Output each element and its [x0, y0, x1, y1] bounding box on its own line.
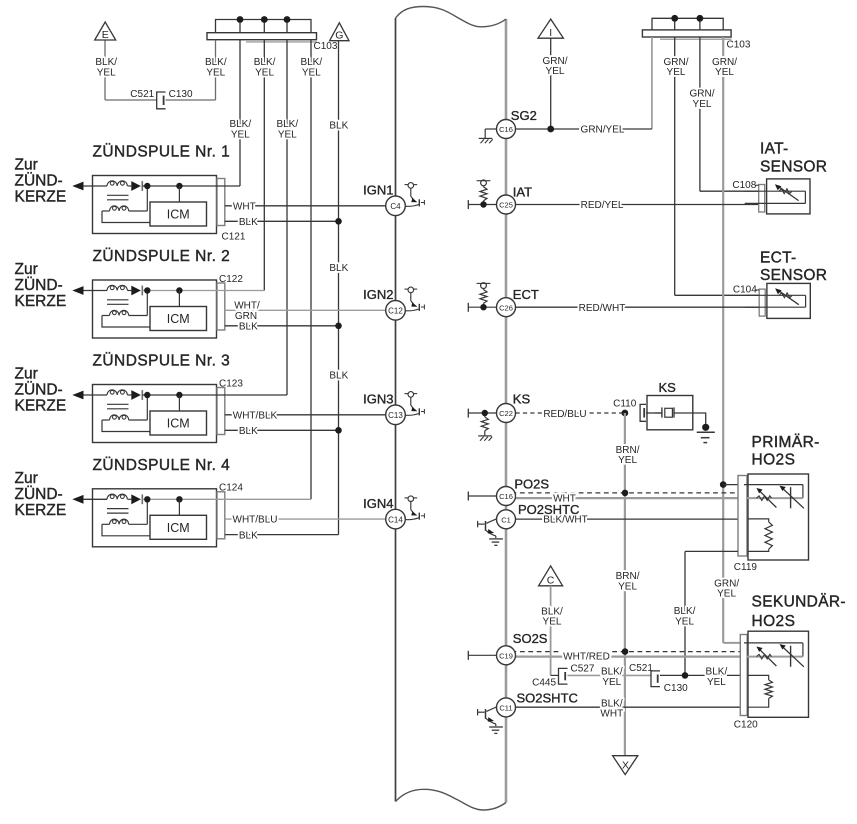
svg-text:C4: C4: [390, 202, 401, 211]
wire GRN/YEL to HO2S sensors: [722, 37, 724, 643]
wire BLK/YEL to coil 4: [310, 40, 312, 500]
wire GRN/YEL from SG2 up to C103: [651, 37, 653, 129]
IAT sensor box: [767, 179, 810, 214]
svg-text:Zur: Zur: [15, 366, 38, 383]
wire WHT output coil 1: [225, 205, 396, 207]
svg-text:C104: C104: [733, 285, 757, 296]
wire stub pin B3: [286, 20, 288, 33]
wire BLK ground bus from G: [338, 41, 340, 535]
svg-text:SENSOR: SENSOR: [760, 159, 827, 176]
junction dot coil 2 diode output: [144, 287, 150, 293]
connector circle C11 (SO2SHTC): [497, 698, 516, 717]
svg-text:SG2: SG2: [511, 108, 537, 123]
wire coil 3 main line: [142, 394, 287, 396]
wire BLK/YEL between connectors: [568, 674, 652, 676]
ignition coil 4 module box: [93, 489, 217, 547]
wire coil 2 main line: [142, 290, 264, 292]
junction dot coil 1 diode output: [144, 183, 150, 189]
wire WHT PO2S signal: [516, 497, 748, 499]
wire BLK/WHT heater control (primary): [516, 518, 749, 520]
svg-text:SEKUNDÄR-: SEKUNDÄR-: [752, 593, 846, 610]
svg-text:C130: C130: [169, 89, 193, 100]
svg-text:SO2S: SO2S: [513, 631, 548, 646]
wire BLK/YEL to coil 1: [239, 40, 241, 186]
wire stub pin B5: [699, 18, 701, 30]
svg-text:C521: C521: [130, 89, 154, 100]
connector C121: [217, 179, 225, 226]
connector circle C4 (IGN1): [386, 196, 406, 216]
wire RED/YEL IAT signal: [516, 204, 759, 206]
svg-text:C119: C119: [734, 562, 758, 573]
connector circle C25 (IAT): [497, 195, 516, 214]
svg-text:BLK: BLK: [239, 426, 258, 437]
svg-text:C123: C123: [219, 378, 243, 389]
svg-text:BLK: BLK: [329, 263, 348, 274]
wire WHT output coil 3: [225, 414, 396, 416]
svg-text:YEL: YEL: [715, 67, 734, 78]
svg-text:HO2S: HO2S: [752, 452, 796, 469]
shield dashed line (SO2S): [512, 651, 741, 653]
svg-text:C14: C14: [388, 515, 403, 524]
ECM wire stub ECT: [468, 306, 496, 308]
svg-text:C445: C445: [532, 678, 556, 689]
wire GRN/YEL pin 1 primary HO2S: [723, 484, 744, 486]
svg-text:YEL: YEL: [602, 677, 621, 688]
junction dot coil 4 ICM tap: [176, 496, 182, 502]
svg-text:Zur: Zur: [15, 261, 38, 278]
ECM wire stub IAT: [468, 204, 496, 206]
svg-text:G: G: [335, 30, 343, 42]
svg-text:ICM: ICM: [167, 417, 190, 431]
junction dot SG2: [547, 126, 554, 133]
wire BLK/WHT heater control (secondary): [516, 706, 749, 708]
wire BLK output coil 1: [225, 220, 339, 222]
wire GRN/YEL to ECT sensor: [674, 37, 676, 295]
svg-text:C103: C103: [314, 41, 338, 52]
svg-text:PRIMÄR-: PRIMÄR-: [752, 434, 820, 451]
svg-text:ICM: ICM: [167, 312, 190, 326]
ICM module U3: [150, 411, 207, 435]
ignition coil 2 module box: [93, 280, 217, 338]
primary winding L4a: [107, 494, 127, 499]
svg-text:C108: C108: [732, 180, 756, 191]
shield dashed line (PO2S): [512, 492, 741, 494]
diode D1: [128, 185, 132, 187]
IAT thermistor element: [745, 190, 806, 192]
junction dot KS: [482, 410, 488, 416]
wire BLK output coil 3: [225, 429, 339, 431]
svg-text:C25: C25: [499, 201, 513, 210]
ECM internal signal ground for SG2: [485, 128, 496, 130]
svg-text:KERZE: KERZE: [15, 189, 67, 206]
connector circle C1 (PO2SHTC): [497, 510, 516, 529]
wire RED/BLU KS signal (shielded): [516, 412, 625, 414]
svg-text:YEL: YEL: [707, 677, 726, 688]
connector circle C16 (PO2S): [497, 487, 516, 506]
secondary winding L4b: [102, 523, 110, 525]
pull-up resistor (ECT): [483, 303, 485, 307]
diode D4: [128, 498, 132, 500]
junction dot bus-4: [671, 15, 678, 22]
ECM wire stub KS: [468, 412, 496, 414]
reference triangle C: [539, 566, 563, 586]
connector C120: [740, 635, 747, 716]
svg-text:C121: C121: [222, 232, 246, 243]
inline connector C110: [640, 404, 646, 421]
ICM module U2: [150, 307, 207, 331]
svg-text:KS: KS: [659, 380, 677, 395]
diode D2: [128, 290, 132, 292]
svg-text:YEL: YEL: [667, 67, 686, 78]
pull-down resistor (KS): [484, 413, 486, 417]
primary winding L3a: [107, 390, 127, 395]
connector circle C13 (IGN3): [386, 405, 406, 425]
svg-text:YEL: YEL: [255, 67, 274, 78]
reference triangle I: [538, 19, 563, 38]
knock sensor KS box: [647, 396, 693, 430]
svg-text:ZÜNDSPULE Nr. 3: ZÜNDSPULE Nr. 3: [93, 352, 231, 370]
svg-text:C122: C122: [219, 274, 243, 285]
svg-text:ZÜND-: ZÜND-: [15, 172, 63, 190]
junction dot shield/BRN-YEL (secondary): [622, 648, 629, 655]
svg-text:C16: C16: [499, 492, 513, 501]
ICM module U4: [150, 515, 207, 539]
wire BLK/YEL to coil 2: [263, 40, 265, 291]
ECM torn-edge top curve: [396, 7, 507, 27]
svg-text:IGN1: IGN1: [363, 183, 393, 198]
transformer core (coil 3): [107, 403, 129, 405]
IGN2 driver symbol: [405, 288, 418, 290]
wire stub pin B1: [239, 20, 241, 33]
piezo crystal element: [661, 407, 663, 417]
wire BLK output coil 2: [225, 325, 339, 327]
IGN1 driver symbol: [405, 184, 418, 186]
svg-text:RED/BLU: RED/BLU: [543, 409, 586, 420]
svg-text:KS: KS: [513, 392, 531, 407]
ECM wire stub PO2S: [468, 495, 496, 497]
svg-text:BLK: BLK: [239, 530, 258, 541]
wire BLK/YEL from triangle C: [550, 586, 552, 676]
svg-text:C1: C1: [501, 515, 511, 524]
secondary HO2S sensor box: [748, 631, 809, 717]
svg-text:C130: C130: [664, 683, 688, 694]
svg-text:YEL: YEL: [618, 582, 637, 593]
wire RED/WHT ECT signal: [516, 306, 760, 308]
svg-text:C12: C12: [388, 307, 403, 316]
inline connector C445/C527: [559, 668, 568, 684]
reference triangle E: [95, 22, 116, 40]
IGN3 driver symbol: [405, 393, 418, 395]
inline connector C521/C130 (bottom): [651, 671, 660, 687]
svg-text:YEL: YEL: [675, 617, 694, 628]
svg-text:WHT/RED: WHT/RED: [563, 652, 610, 663]
transformer core (coil 4): [107, 508, 129, 510]
svg-text:IGN2: IGN2: [363, 287, 393, 302]
reference triangle X (inverted): [613, 756, 638, 775]
svg-text:YEL: YEL: [302, 67, 321, 78]
svg-text:GRN/YEL: GRN/YEL: [581, 125, 625, 136]
svg-text:ZÜNDSPULE Nr. 1: ZÜNDSPULE Nr. 1: [93, 143, 231, 161]
wire BRN/YEL shield drain: [624, 413, 626, 756]
svg-text:YEL: YEL: [546, 66, 565, 77]
wire BLK/YEL to secondary HO2S heater: [660, 674, 748, 676]
svg-text:PO2S: PO2S: [514, 476, 549, 491]
svg-text:Zur: Zur: [15, 470, 38, 487]
svg-text:C527: C527: [571, 663, 595, 674]
ignition coil 1 module box: [93, 176, 217, 234]
connector circle C12 (IGN2): [386, 301, 406, 321]
junction dot IAT: [480, 201, 486, 207]
diode D3: [128, 394, 132, 396]
svg-text:ZÜNDSPULE Nr. 2: ZÜNDSPULE Nr. 2: [93, 247, 231, 265]
svg-text:Zur: Zur: [15, 157, 38, 174]
connector circle C16 (SG2): [497, 120, 516, 139]
junction dot KS ground: [702, 424, 709, 431]
heater driver symbol (PO2SHTC): [477, 521, 479, 527]
connector C103 right bus bracket: [652, 18, 723, 30]
heater driver symbol (SO2SHTC): [477, 709, 479, 715]
wire heater return BLK/YEL (primary): [685, 550, 738, 552]
svg-text:IAT-: IAT-: [760, 141, 788, 158]
svg-text:YEL: YEL: [278, 129, 297, 140]
junction dot BLK bus coil 3: [335, 427, 342, 434]
svg-text:IGN4: IGN4: [363, 496, 393, 511]
wire SG2 GRN/YEL: [516, 128, 652, 130]
svg-text:YEL: YEL: [231, 129, 250, 140]
connector C122: [217, 283, 225, 330]
wire GRN/YEL from triangle I to SG2: [550, 38, 552, 129]
svg-text:C521: C521: [629, 663, 653, 674]
svg-text:WHT: WHT: [600, 709, 623, 720]
junction dot bus-3: [284, 16, 291, 23]
connector circle C19 (SO2S): [497, 646, 516, 665]
primary winding L1a: [107, 181, 127, 186]
svg-text:C124: C124: [219, 483, 243, 494]
svg-text:C13: C13: [388, 411, 403, 420]
junction dot C110: [622, 410, 629, 417]
svg-text:C110: C110: [613, 399, 637, 410]
wire WHT/RED SO2S signal: [516, 655, 748, 657]
svg-text:ECT-: ECT-: [760, 250, 797, 267]
arrow to spark plug (coil 1): [72, 182, 83, 191]
secondary winding L3b: [102, 419, 110, 421]
svg-text:X: X: [622, 760, 629, 772]
svg-text:YEL: YEL: [206, 67, 225, 78]
ECT thermistor element: [745, 294, 805, 296]
svg-text:PO2SHTC: PO2SHTC: [518, 502, 579, 517]
junction dot coil 3 ICM tap: [176, 392, 182, 398]
arrow to spark plug (coil 4): [72, 495, 83, 504]
svg-text:WHT: WHT: [233, 201, 256, 212]
wire coil 4 main line: [142, 498, 311, 500]
connector circle C26 (ECT): [497, 298, 516, 317]
svg-text:ZÜND-: ZÜND-: [15, 485, 63, 503]
svg-text:ICM: ICM: [167, 208, 190, 222]
svg-text:C16: C16: [499, 125, 513, 134]
arrow to spark plug (coil 3): [72, 391, 83, 400]
primary winding L2a: [107, 285, 127, 290]
ECM torn-edge bottom curve: [396, 789, 507, 810]
wire BLK output coil 4: [225, 534, 339, 536]
junction dot bus-2: [261, 16, 268, 23]
primary HO2S heater resistor: [748, 519, 769, 522]
svg-text:ZÜND-: ZÜND-: [15, 276, 63, 294]
junction dot coil 1 ICM tap: [176, 183, 182, 189]
junction dot ECT: [480, 304, 486, 310]
svg-text:BLK: BLK: [239, 217, 258, 228]
connector circle C14 (IGN4): [386, 509, 406, 529]
svg-text:C103: C103: [727, 40, 751, 51]
svg-text:RED/WHT: RED/WHT: [579, 303, 626, 314]
svg-text:I: I: [549, 27, 552, 39]
connector C108: [759, 185, 765, 213]
connector circle C22 (KS): [497, 404, 516, 423]
secondary winding L2b: [102, 315, 110, 317]
ECT sensor box: [767, 283, 810, 318]
inline connector C521/C130 (top): [157, 92, 166, 109]
junction dot coil 3 diode output: [144, 392, 150, 398]
svg-text:ECT: ECT: [513, 287, 539, 302]
ground (KS case): [697, 431, 715, 433]
primary HO2S element: [744, 484, 803, 486]
svg-text:BLK: BLK: [329, 120, 348, 131]
wire stub pin B2: [263, 20, 265, 33]
svg-text:KERZE: KERZE: [15, 502, 67, 519]
svg-text:YEL: YEL: [693, 99, 712, 110]
secondary winding L1b: [102, 210, 110, 212]
svg-text:ZÜND-: ZÜND-: [15, 381, 63, 399]
wire GRN/YEL to IAT sensor: [699, 37, 701, 191]
ICM module U1: [150, 202, 207, 226]
wire GRN/YEL pin 1 secondary HO2S: [723, 642, 744, 644]
ECM wire stub SO2S: [468, 654, 496, 656]
svg-text:GRN: GRN: [235, 311, 257, 322]
svg-text:KERZE: KERZE: [15, 398, 67, 415]
svg-text:C11: C11: [499, 704, 512, 713]
transformer core (coil 1): [107, 194, 129, 196]
KS case ground wire: [693, 413, 706, 424]
svg-text:BLK: BLK: [239, 322, 258, 333]
svg-text:WHT/BLU: WHT/BLU: [233, 515, 278, 526]
connector C124: [217, 492, 225, 539]
wire WHT output coil 4: [225, 518, 396, 520]
svg-text:ZÜNDSPULE Nr. 4: ZÜNDSPULE Nr. 4: [93, 456, 231, 474]
svg-text:C: C: [547, 575, 555, 587]
transformer core (coil 2): [107, 299, 129, 301]
arrow to spark plug (coil 2): [72, 286, 83, 295]
junction dot shield/BRN-YEL (primary): [622, 490, 629, 497]
connector C123: [217, 388, 225, 435]
svg-text:E: E: [102, 29, 109, 41]
svg-text:YEL: YEL: [618, 455, 637, 466]
svg-text:BLK: BLK: [329, 371, 348, 382]
junction dot bus-1: [237, 16, 244, 23]
svg-text:YEL: YEL: [543, 617, 562, 628]
ignition coil 3 module box: [93, 385, 217, 443]
junction dot coil 2 ICM tap: [176, 287, 182, 293]
junction dot BLK bus coil 1: [335, 218, 342, 225]
pull-up resistor (IAT): [483, 201, 485, 205]
primary HO2S sensor box: [748, 474, 809, 560]
connector C103 housing bar (right): [642, 30, 731, 37]
connector C104: [759, 289, 765, 316]
svg-text:C22: C22: [499, 409, 513, 418]
connector C103 housing bar (left): [207, 33, 317, 40]
svg-text:IGN3: IGN3: [363, 392, 393, 407]
connector C119: [738, 476, 747, 557]
junction dot GRN/YEL tap (primary HO2S): [720, 481, 727, 488]
svg-text:SENSOR: SENSOR: [760, 267, 827, 284]
svg-text:KERZE: KERZE: [15, 293, 67, 310]
junction dot coil 4 diode output: [144, 496, 150, 502]
secondary HO2S heater resistor: [748, 675, 769, 680]
ECM left boundary line: [395, 18, 397, 802]
svg-text:HO2S: HO2S: [752, 613, 796, 630]
wire into knock sensor: [646, 412, 662, 414]
wire BLK/YEL to coil 3: [286, 40, 288, 395]
IGN4 driver symbol: [405, 497, 418, 499]
svg-text:C19: C19: [499, 651, 513, 660]
svg-text:RED/YEL: RED/YEL: [581, 200, 624, 211]
wire WHT output coil 2: [225, 309, 396, 311]
wire up to triangle E: [104, 41, 106, 101]
junction dot BLK bus coil 2: [335, 323, 342, 330]
secondary HO2S element: [744, 642, 803, 644]
reference triangle G: [330, 23, 349, 41]
svg-text:SO2SHTC: SO2SHTC: [517, 690, 578, 705]
ECM right boundary line: [505, 19, 508, 803]
junction dot bus-5: [697, 15, 704, 22]
svg-text:ICM: ICM: [167, 521, 190, 535]
wire coil 1 main line: [142, 185, 240, 187]
wire stub pin B4: [674, 18, 676, 30]
wire segment to C521/C130 capacitor connector: [166, 99, 216, 101]
svg-text:C120: C120: [734, 719, 758, 730]
wire BLK/YEL to E reference: [215, 40, 217, 100]
svg-text:YEL: YEL: [97, 67, 116, 78]
svg-text:YEL: YEL: [717, 589, 736, 600]
svg-text:C26: C26: [499, 303, 513, 312]
connector C103 left bus bracket: [216, 20, 312, 33]
svg-text:WHT/BLK: WHT/BLK: [233, 410, 278, 421]
svg-text:IAT: IAT: [513, 185, 532, 200]
junction dot heater feed: [682, 672, 689, 679]
